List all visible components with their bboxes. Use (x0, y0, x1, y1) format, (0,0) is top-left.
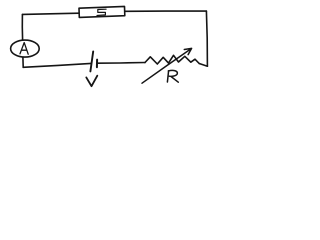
ammeter A1 (11, 40, 40, 57)
battery cell V1 short plate (96, 60, 98, 68)
label V (86, 76, 97, 87)
label A (20, 43, 28, 55)
wire bottom-left to battery (23, 63, 91, 67)
wire rheostat to bottom-right corner (199, 64, 207, 67)
wire top-left to switch (23, 13, 80, 14)
switch S1 (79, 6, 125, 17)
rheostat R zigzag (145, 55, 199, 64)
wire right vertical (206, 11, 207, 66)
label R (167, 70, 178, 82)
rheostat wiper arrow (142, 48, 192, 83)
wire battery to rheostat (97, 62, 145, 65)
battery cell V1 long plate (90, 51, 93, 71)
wire left vertical (21, 14, 23, 40)
wire ammeter to bottom-left corner (22, 57, 24, 67)
label S (97, 9, 106, 15)
wire switch to top-right corner (125, 10, 207, 12)
